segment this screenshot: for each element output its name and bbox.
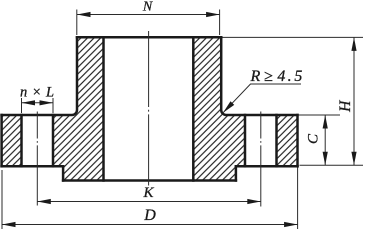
arrowhead: K right bbox=[247, 199, 261, 204]
extension line: D left bbox=[1, 170, 3, 229]
dimension line: N bbox=[77, 14, 220, 16]
outline: left bolt hole right wall bbox=[52, 115, 55, 166]
outline: hub left wall with fillet into plate top bbox=[2, 37, 77, 115]
svg-text:D: D bbox=[143, 207, 156, 224]
extension line: plate bottom level (for C and H) bbox=[300, 164, 364, 166]
outline: flange left edge bbox=[0, 115, 3, 166]
outline: plate bottom right rim bbox=[236, 165, 298, 168]
svg-text:n×L: n×L bbox=[20, 84, 59, 100]
extension line: n×L left bbox=[21, 98, 23, 113]
extension line: n×L right bbox=[52, 98, 54, 113]
section hatch: right rim of plate bbox=[277, 115, 298, 166]
outline: hub top face bbox=[77, 36, 221, 39]
svg-text:N: N bbox=[142, 0, 153, 15]
dimension line: K bbox=[37, 201, 260, 203]
arrowhead: C bottom bbox=[323, 152, 328, 166]
extension line: D right bbox=[297, 168, 299, 230]
outline: hub right wall with fillet R into plate top bbox=[221, 37, 297, 115]
outline: plate bottom left rim bbox=[2, 165, 64, 168]
extension line: N right bbox=[219, 10, 221, 36]
arrowhead: n×L left bbox=[22, 100, 36, 105]
outline: boss bottom face bbox=[63, 179, 236, 182]
centerline: right bolt hole (dash-dot) bbox=[260, 112, 262, 172]
arrowhead: n×L right bbox=[40, 100, 54, 105]
arrowhead: N left bbox=[77, 12, 91, 17]
centerline: left bolt hole (dash-dot) bbox=[36, 112, 38, 172]
outline: bore left wall bbox=[102, 37, 105, 180]
dimension line: n×L bbox=[22, 102, 54, 104]
extension line: top face level (for H) bbox=[223, 36, 364, 38]
arrowhead: H top bbox=[351, 37, 356, 51]
outline: left bolt hole left wall bbox=[20, 115, 23, 166]
svg-text:K: K bbox=[142, 185, 154, 201]
extension line: N left bbox=[76, 10, 78, 36]
arrowhead: C top bbox=[323, 115, 328, 129]
leader line: R>=4.5 bbox=[223, 84, 301, 113]
arrowhead: D left bbox=[2, 222, 16, 227]
dimension line: H bbox=[353, 37, 355, 165]
extension line: plate top level (for C) bbox=[299, 114, 340, 116]
centerline: main axis (dash-dot) bbox=[148, 31, 150, 186]
dimension line: D bbox=[2, 224, 298, 226]
svg-text:H: H bbox=[337, 100, 354, 113]
extension line: K right (from bolt centerline) bbox=[260, 172, 262, 207]
arrowhead: N right bbox=[206, 12, 220, 17]
section hatch: right hub wall + plate + boss bbox=[193, 37, 245, 180]
arrowhead: K left bbox=[37, 199, 51, 204]
section hatch: left rim of plate bbox=[2, 115, 22, 166]
outline: boss right step bbox=[235, 166, 238, 180]
outline: flange right edge bbox=[296, 115, 299, 166]
extension line: K left (from bolt centerline) bbox=[36, 172, 38, 206]
arrowhead: D right bbox=[284, 222, 298, 227]
outline: boss left step bbox=[62, 166, 65, 180]
outline: bore right wall bbox=[192, 37, 195, 180]
dimension line: C bbox=[324, 115, 326, 165]
arrowhead: R leader bbox=[221, 101, 234, 114]
outline: right bolt hole left wall bbox=[244, 115, 247, 166]
outline: right bolt hole right wall bbox=[275, 115, 278, 166]
arrowhead: H bottom bbox=[351, 152, 356, 166]
section hatch: left hub wall + plate + boss bbox=[53, 37, 104, 180]
svg-text:C: C bbox=[306, 133, 322, 144]
